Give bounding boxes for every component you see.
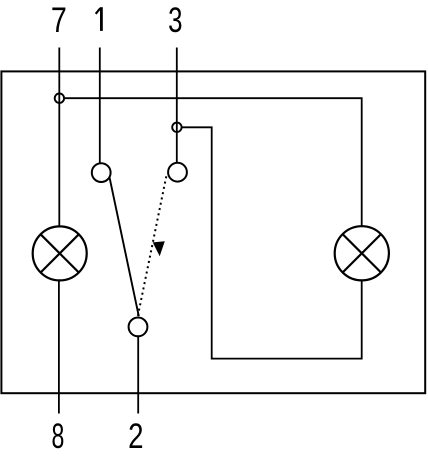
svg-text:8: 8 <box>51 417 64 456</box>
wire switch common to terminal 2 <box>137 337 139 414</box>
lamp E2 cross stroke 2 <box>343 234 381 272</box>
svg-text:2: 2 <box>128 416 143 456</box>
lamp E1 cross stroke 1 <box>41 234 79 272</box>
node junction on wire 7 <box>55 94 64 103</box>
wire from node 7 right and down to right lamp top <box>65 98 362 226</box>
wire from node 3 right, down and to right lamp bottom <box>182 127 362 358</box>
switch S1 lever closed position <box>109 177 138 316</box>
lamp E1 left circle <box>33 226 87 280</box>
wire terminal 1 down to left switch contact <box>99 48 101 163</box>
svg-text:3: 3 <box>168 0 182 40</box>
switch S1 common contact circle <box>129 318 148 337</box>
wire terminal 7 down to left lamp top <box>58 48 60 227</box>
switch S1 right contact circle <box>168 163 187 182</box>
switch S1 lever alternate position dotted <box>138 176 167 316</box>
switch S1 left contact circle <box>92 163 111 182</box>
wire left lamp bottom to terminal 8 <box>58 280 60 413</box>
wire terminal 3 down to right switch contact <box>176 48 178 163</box>
lamp E2 right circle <box>335 226 389 280</box>
switch S1 motion arrowhead <box>153 241 165 256</box>
svg-text:7: 7 <box>51 0 67 39</box>
terminal label 1 <box>96 7 102 31</box>
enclosure box <box>1 71 425 393</box>
lamp E2 cross stroke 1 <box>343 234 381 272</box>
lamp E1 cross stroke 2 <box>41 234 79 272</box>
node junction on wire 3 <box>172 123 181 132</box>
